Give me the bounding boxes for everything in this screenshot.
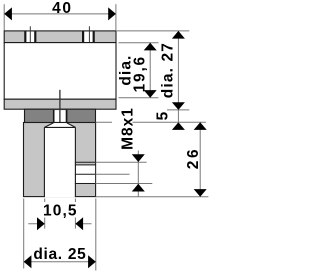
dimension 10,5: left arrow (outside, pointing right) [37, 217, 45, 230]
stem slot in collar [53, 110, 68, 123]
dimension 10,5: left tail line [28, 223, 44, 225]
slot 1 in top plate [24, 31, 36, 42]
main centerline of stud [59, 90, 61, 147]
thread M8x1: upper arrow (pointing down) [132, 154, 145, 162]
dimension 40: left arrow [4, 7, 12, 20]
dimension 26: top arrow [194, 122, 207, 130]
dimension 40: right arrow [108, 7, 116, 20]
dimension 10,5: left extension line (gap behind label) [44, 199, 46, 203]
svg-text:19,6: 19,6 [132, 55, 149, 92]
cone right edge [67, 123, 76, 128]
dimension 40: right extension line [115, 4, 117, 30]
base plate (bottom flange of housing) [4, 99, 116, 109]
dimension dia.19,6: top extension line [119, 42, 159, 44]
dimension dia.25: left extension line [23, 199, 25, 269]
cylinder left edge [43, 127, 45, 197]
svg-text:10,5: 10,5 [43, 202, 78, 219]
thread M8x1: upper extension line [96, 161, 147, 163]
dimension dia.25: dimension line [24, 261, 96, 263]
dimension 40: dimension line [4, 13, 116, 15]
thread M8x1: leader line [137, 151, 139, 197]
groove window in right sleeve [76, 165, 95, 183]
dimension 40: left extension line [3, 4, 5, 30]
sleeve block below collar [24, 123, 96, 197]
svg-text:5: 5 [155, 111, 172, 120]
dimension 26: bottom extension line [96, 196, 209, 198]
dimension dia.25: right arrow [88, 255, 96, 268]
dimension dia.27: bottom arrow (also top arrow of 5) [172, 102, 185, 110]
dimension 10,5: right tail line [75, 223, 91, 225]
top plate (side view, 40 wide) [4, 31, 116, 43]
dimension dia.19,6: top arrow [144, 43, 157, 51]
dimension 26: bottom arrow [194, 189, 207, 197]
centerline of slot 1 [29, 26, 31, 50]
centerline of slot 2 [88, 26, 90, 50]
dimension dia.19,6: bottom extension line [119, 97, 159, 99]
cylinder right edge [74, 127, 76, 197]
dimension 26: dimension line [199, 122, 201, 197]
dimension dia.19,6: dimension line [149, 43, 151, 98]
dimension 5: bottom arrow (outside, pointing up) [172, 122, 185, 130]
svg-text:dia. 25: dia. 25 [33, 246, 86, 263]
svg-text:dia. 27: dia. 27 [159, 42, 176, 98]
svg-text:40: 40 [52, 0, 72, 17]
dimension dia.19,6: bottom arrow [144, 90, 157, 98]
cone recess (white trapezoid) [44, 123, 75, 127]
groove line A (double) [75, 161, 96, 163]
washer / collar (dark band) [25, 109, 96, 123]
svg-text:26: 26 [185, 147, 202, 169]
slot 2 in top plate [82, 31, 95, 42]
cone left edge [44, 123, 53, 128]
groove line B [75, 173, 96, 175]
dimension 10,5: right arrow (outside, pointing left) [75, 217, 83, 230]
thread M8x1: lower extension line [96, 183, 153, 185]
cylinder top edge [44, 126, 75, 128]
dimension dia.25: right extension line [95, 199, 97, 271]
cylinder body (white, open bottom) [45, 128, 75, 197]
dimension 10,5: right extension line (gap behind label) [74, 199, 76, 203]
thread M8x1: lower arrow (pointing up) [132, 184, 145, 192]
svg-text:M8x1: M8x1 [119, 107, 136, 150]
dimension dia.27 / 5: shared dimension line [177, 31, 179, 129]
dimension dia.27: top extension line [117, 30, 189, 32]
dimension dia.25: left arrow [24, 255, 32, 268]
housing body (white box) [4, 43, 116, 100]
groove line C [75, 183, 96, 185]
dimension 26: top extension line (shared with 5 bottom) [96, 121, 112, 123]
thread M8x1: middle extension stub [96, 173, 130, 175]
dimension dia.27: bottom extension stub [167, 109, 189, 111]
dimension dia.27: top arrow [172, 31, 185, 39]
